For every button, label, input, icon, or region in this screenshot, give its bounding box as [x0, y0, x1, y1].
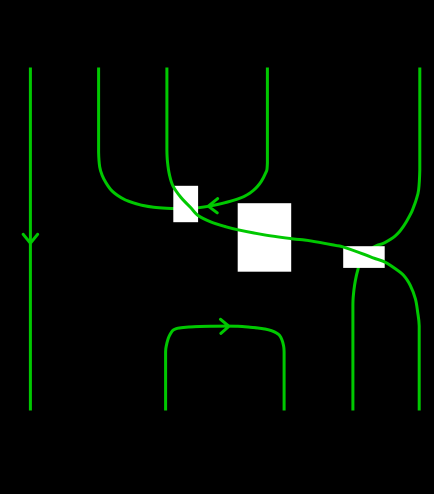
- wire bottom cap: [166, 326, 285, 410]
- arrowhead right on cap: [221, 319, 230, 333]
- box morphism big: [238, 203, 292, 272]
- wire cup-left-to-right: [99, 68, 268, 209]
- wire diagonal: [167, 68, 419, 411]
- wire left vertical: [29, 68, 32, 411]
- arrowhead left on cup: [208, 199, 217, 213]
- box crossing-mask small: [173, 186, 198, 222]
- arrowhead down on left vertical: [23, 234, 37, 243]
- wire right strand: [353, 68, 420, 411]
- box crossing-mask right: [343, 246, 385, 268]
